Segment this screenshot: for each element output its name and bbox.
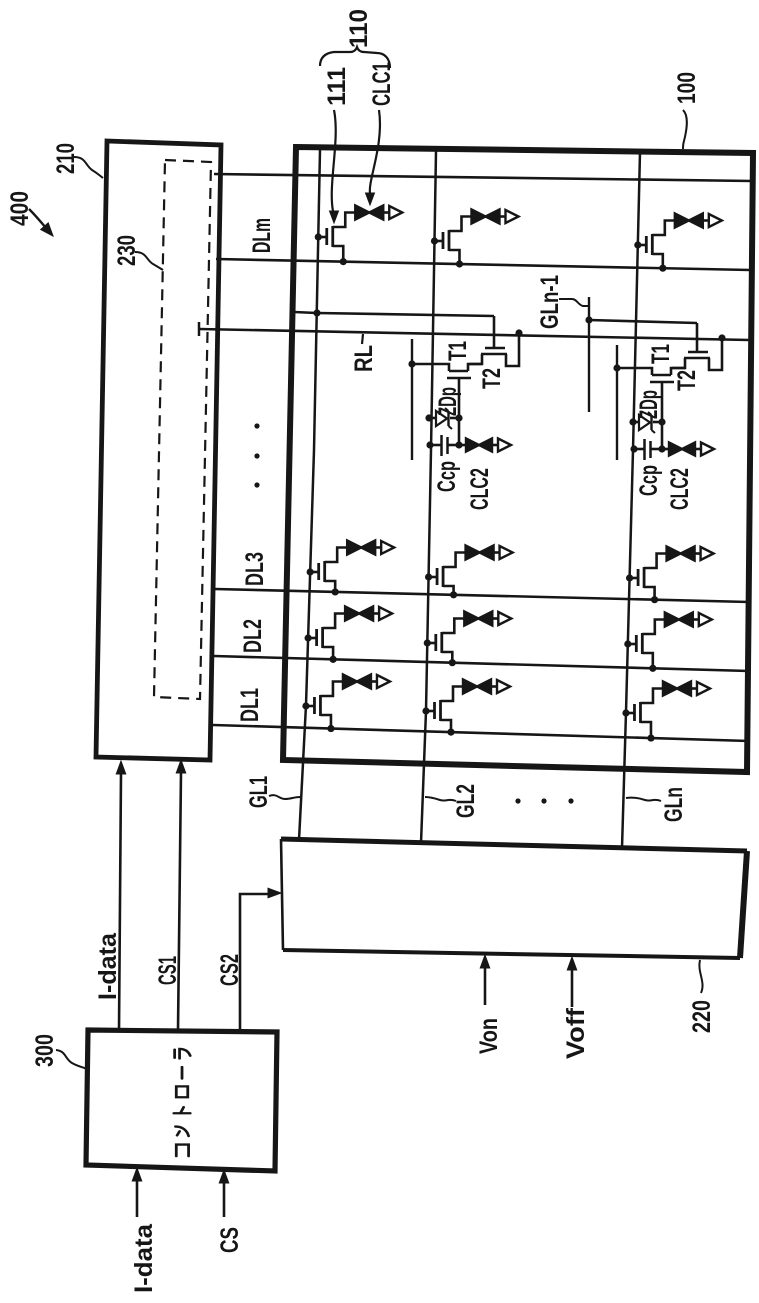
svg-text:210: 210 (52, 143, 80, 174)
svg-text:GL1: GL1 (245, 776, 273, 808)
svg-text:220: 220 (688, 1000, 716, 1033)
svg-text:I-data: I-data (94, 932, 122, 1000)
svg-text:CLC1: CLC1 (368, 62, 396, 106)
svg-text:T2: T2 (478, 368, 506, 389)
svg-text:GLn-1: GLn-1 (536, 275, 564, 329)
svg-text:230: 230 (113, 235, 141, 266)
svg-text:CS1: CS1 (154, 956, 182, 985)
svg-text:DL1: DL1 (236, 688, 264, 722)
svg-text:300: 300 (31, 1034, 59, 1067)
svg-text:T1: T1 (647, 344, 675, 364)
svg-text:I-data: I-data (130, 1223, 158, 1293)
svg-text:CS: CS (216, 1227, 244, 1253)
svg-text:DL2: DL2 (239, 619, 267, 653)
svg-text:T1: T1 (444, 341, 472, 361)
svg-text:Ccp: Ccp (635, 465, 663, 496)
svg-text:111: 111 (323, 67, 351, 106)
svg-text:RL: RL (350, 345, 378, 372)
svg-text:CLC2: CLC2 (666, 468, 694, 510)
svg-text:CS2: CS2 (216, 954, 244, 986)
svg-text:DL3: DL3 (241, 552, 269, 586)
svg-text:ZDp: ZDp (434, 387, 462, 416)
svg-text:400: 400 (6, 191, 34, 226)
svg-text:Von: Von (475, 1018, 503, 1054)
svg-text:Voff: Voff (562, 1007, 590, 1059)
svg-text:Ccp: Ccp (433, 461, 461, 492)
svg-text:CLC2: CLC2 (466, 468, 494, 510)
svg-text:DLm: DLm (248, 218, 276, 253)
svg-text:GLn: GLn (660, 787, 688, 822)
svg-text:110: 110 (345, 9, 373, 48)
svg-text:T2: T2 (673, 370, 701, 391)
svg-text:ZDp: ZDp (635, 390, 663, 419)
svg-text:100: 100 (673, 72, 701, 104)
svg-text:GL2: GL2 (452, 784, 480, 818)
